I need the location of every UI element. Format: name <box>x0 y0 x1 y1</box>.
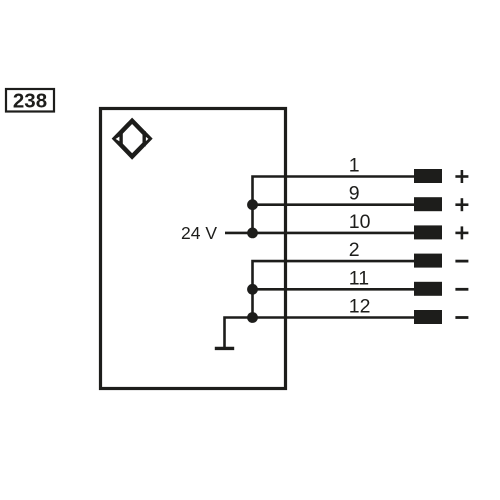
sensor symbol U1 (diamond with inner hexagon and triangles) <box>114 121 149 157</box>
device outline (sensor body) <box>101 109 286 389</box>
right vertical bar of hexagon <box>143 131 146 146</box>
ground symbol <box>215 347 234 350</box>
polarity + (terminal 1) <box>455 170 468 183</box>
junction dot (bus / wire 12 / ground branch) <box>247 312 258 323</box>
polarity - (terminal 12) <box>455 316 468 319</box>
terminal 2 <box>414 254 442 268</box>
polarity + (terminal 9) <box>455 198 468 211</box>
junction dot (bus / wire 10 / 24 V) <box>247 228 258 239</box>
right small triangle <box>145 135 149 142</box>
24 V supply wire <box>225 232 253 235</box>
terminal 12 <box>414 310 442 324</box>
svg-text:1: 1 <box>349 155 360 177</box>
terminal 1 <box>414 169 442 183</box>
terminal 10 <box>414 225 442 239</box>
left small triangle <box>114 135 120 142</box>
wire 2 (bus top to terminal 2) <box>253 261 415 317</box>
left vertical bar of hexagon <box>120 131 123 146</box>
polarity - (terminal 11) <box>455 288 468 291</box>
figure number label 238 <box>6 89 54 113</box>
terminal 11 <box>414 282 442 296</box>
wire 11 <box>253 288 415 291</box>
wire 9 <box>253 203 415 206</box>
outer diamond <box>115 121 150 157</box>
ground branch wire <box>225 318 253 348</box>
wire 12 <box>253 316 415 319</box>
svg-text:238: 238 <box>13 90 47 113</box>
svg-text:11: 11 <box>349 267 369 289</box>
svg-text:12: 12 <box>349 296 371 318</box>
wire 1 (bus top to terminal 1) <box>253 177 415 233</box>
wire 10 <box>253 232 415 235</box>
svg-text:9: 9 <box>349 183 360 205</box>
junction dot (bus / wire 11) <box>247 284 258 295</box>
polarity + (terminal 10) <box>455 226 468 239</box>
svg-text:10: 10 <box>349 211 371 233</box>
junction dot (bus / wire 9) <box>247 199 258 210</box>
polarity - (terminal 2) <box>455 260 468 263</box>
svg-text:2: 2 <box>349 239 360 261</box>
terminal 9 <box>414 197 442 211</box>
svg-text:24 V: 24 V <box>181 223 217 243</box>
